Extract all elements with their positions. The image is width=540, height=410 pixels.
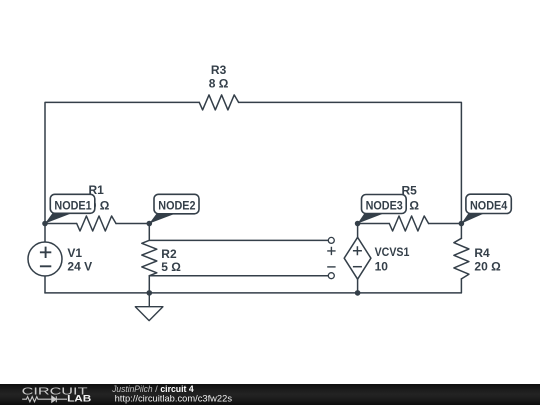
label VCVS1 name [375,245,410,259]
wire R5 left lead from NODE3 [358,223,390,225]
wire VCVS control positive terminal [149,239,328,241]
svg-text:NODE1: NODE1 [54,199,91,213]
terminal circle + (VCVS1 control) [328,237,334,243]
wire R1 right lead to NODE2 [116,223,149,225]
label R5 value [399,198,419,212]
resistor R5 [389,216,428,231]
svg-text:http://circuitlab.com/c3fw22s: http://circuitlab.com/c3fw22s [115,393,233,404]
svg-text:LAB: LAB [67,393,91,404]
wire top rail left (R3 left lead to top-left corner, down to V1 top) [45,102,199,241]
minus sign control port [327,266,335,268]
node junction dot NODE1 [42,221,48,227]
svg-text:20 Ω: 20 Ω [474,260,501,274]
label R1 value [83,198,110,212]
minus sign inside VCVS1 [353,266,362,268]
wire V1 bottom lead [44,276,46,293]
svg-text:VCVS1: VCVS1 [375,245,410,259]
label R2 name [161,247,177,261]
dependent source VCVS1 diamond [344,237,371,279]
svg-text:8 Ω: 8 Ω [209,77,229,91]
resistor R2 [142,240,157,275]
footer url [115,393,233,404]
CircuitLab logo wordmark CIRCUIT [22,387,88,398]
svg-text:NODE2: NODE2 [158,198,195,212]
wire R1 left lead from NODE1 [45,223,77,225]
label V1 value [67,260,92,274]
node junction dot ground rail right [355,290,361,296]
minus sign inside V1 [40,265,51,267]
CircuitLab logo schematic squiggle with resistor and diode [22,396,67,402]
plus sign inside VCVS1 [353,246,362,255]
wire top rail right (R3 right lead to top-right corner, down to NODE4) [239,102,462,223]
wire R5 right lead to NODE4 [429,223,462,225]
label V1 name [67,246,82,260]
svg-text:V1: V1 [67,246,82,260]
ground symbol [135,293,163,321]
wire VCVS control negative terminal [149,275,328,277]
voltage source V1 circle [28,242,62,276]
terminal circle - (VCVS1 control) [328,273,334,279]
wire R2 bottom lead [148,276,150,293]
resistor R3 [199,95,238,110]
footer title JustinPilch / circuit 4 [111,384,194,394]
label R3 name [211,63,227,77]
svg-text:R4: R4 [474,246,490,260]
label R3 value [209,77,229,91]
resistor R4 [454,238,469,279]
node label NODE2 [149,194,199,223]
node junction dot ground rail left [147,290,153,296]
node junction dot NODE2 [147,221,153,227]
svg-text:R3: R3 [211,63,227,77]
wire bottom rail [45,279,461,293]
svg-text:5 Ω: 5 Ω [161,260,181,274]
footer bar [0,384,540,405]
node junction dot NODE4 [459,221,465,227]
wire VCVS1 bottom lead [357,279,359,293]
node label NODE3 [358,195,407,224]
label R1 name [89,183,105,197]
svg-text:10: 10 [375,259,389,273]
svg-text:24 V: 24 V [67,260,92,274]
label R4 value [474,260,501,274]
plus sign control port [327,247,335,255]
resistor R1 [77,216,116,231]
svg-text:NODE3: NODE3 [366,199,403,213]
wire VCVS1 top lead [357,224,359,238]
node junction dot NODE3 [355,221,361,227]
plus sign inside V1 [40,247,51,258]
label VCVS1 value [375,259,389,273]
label R2 value [161,260,181,274]
wire R4 top lead [460,224,462,239]
node label NODE4 [461,194,511,223]
node label NODE1 [45,194,95,223]
label R4 name [474,246,490,260]
CircuitLab logo wordmark LAB [67,393,91,404]
svg-text:R2: R2 [161,247,177,261]
wire R2 top lead [148,224,150,241]
svg-text:NODE4: NODE4 [470,199,507,213]
label R5 name [402,184,418,198]
